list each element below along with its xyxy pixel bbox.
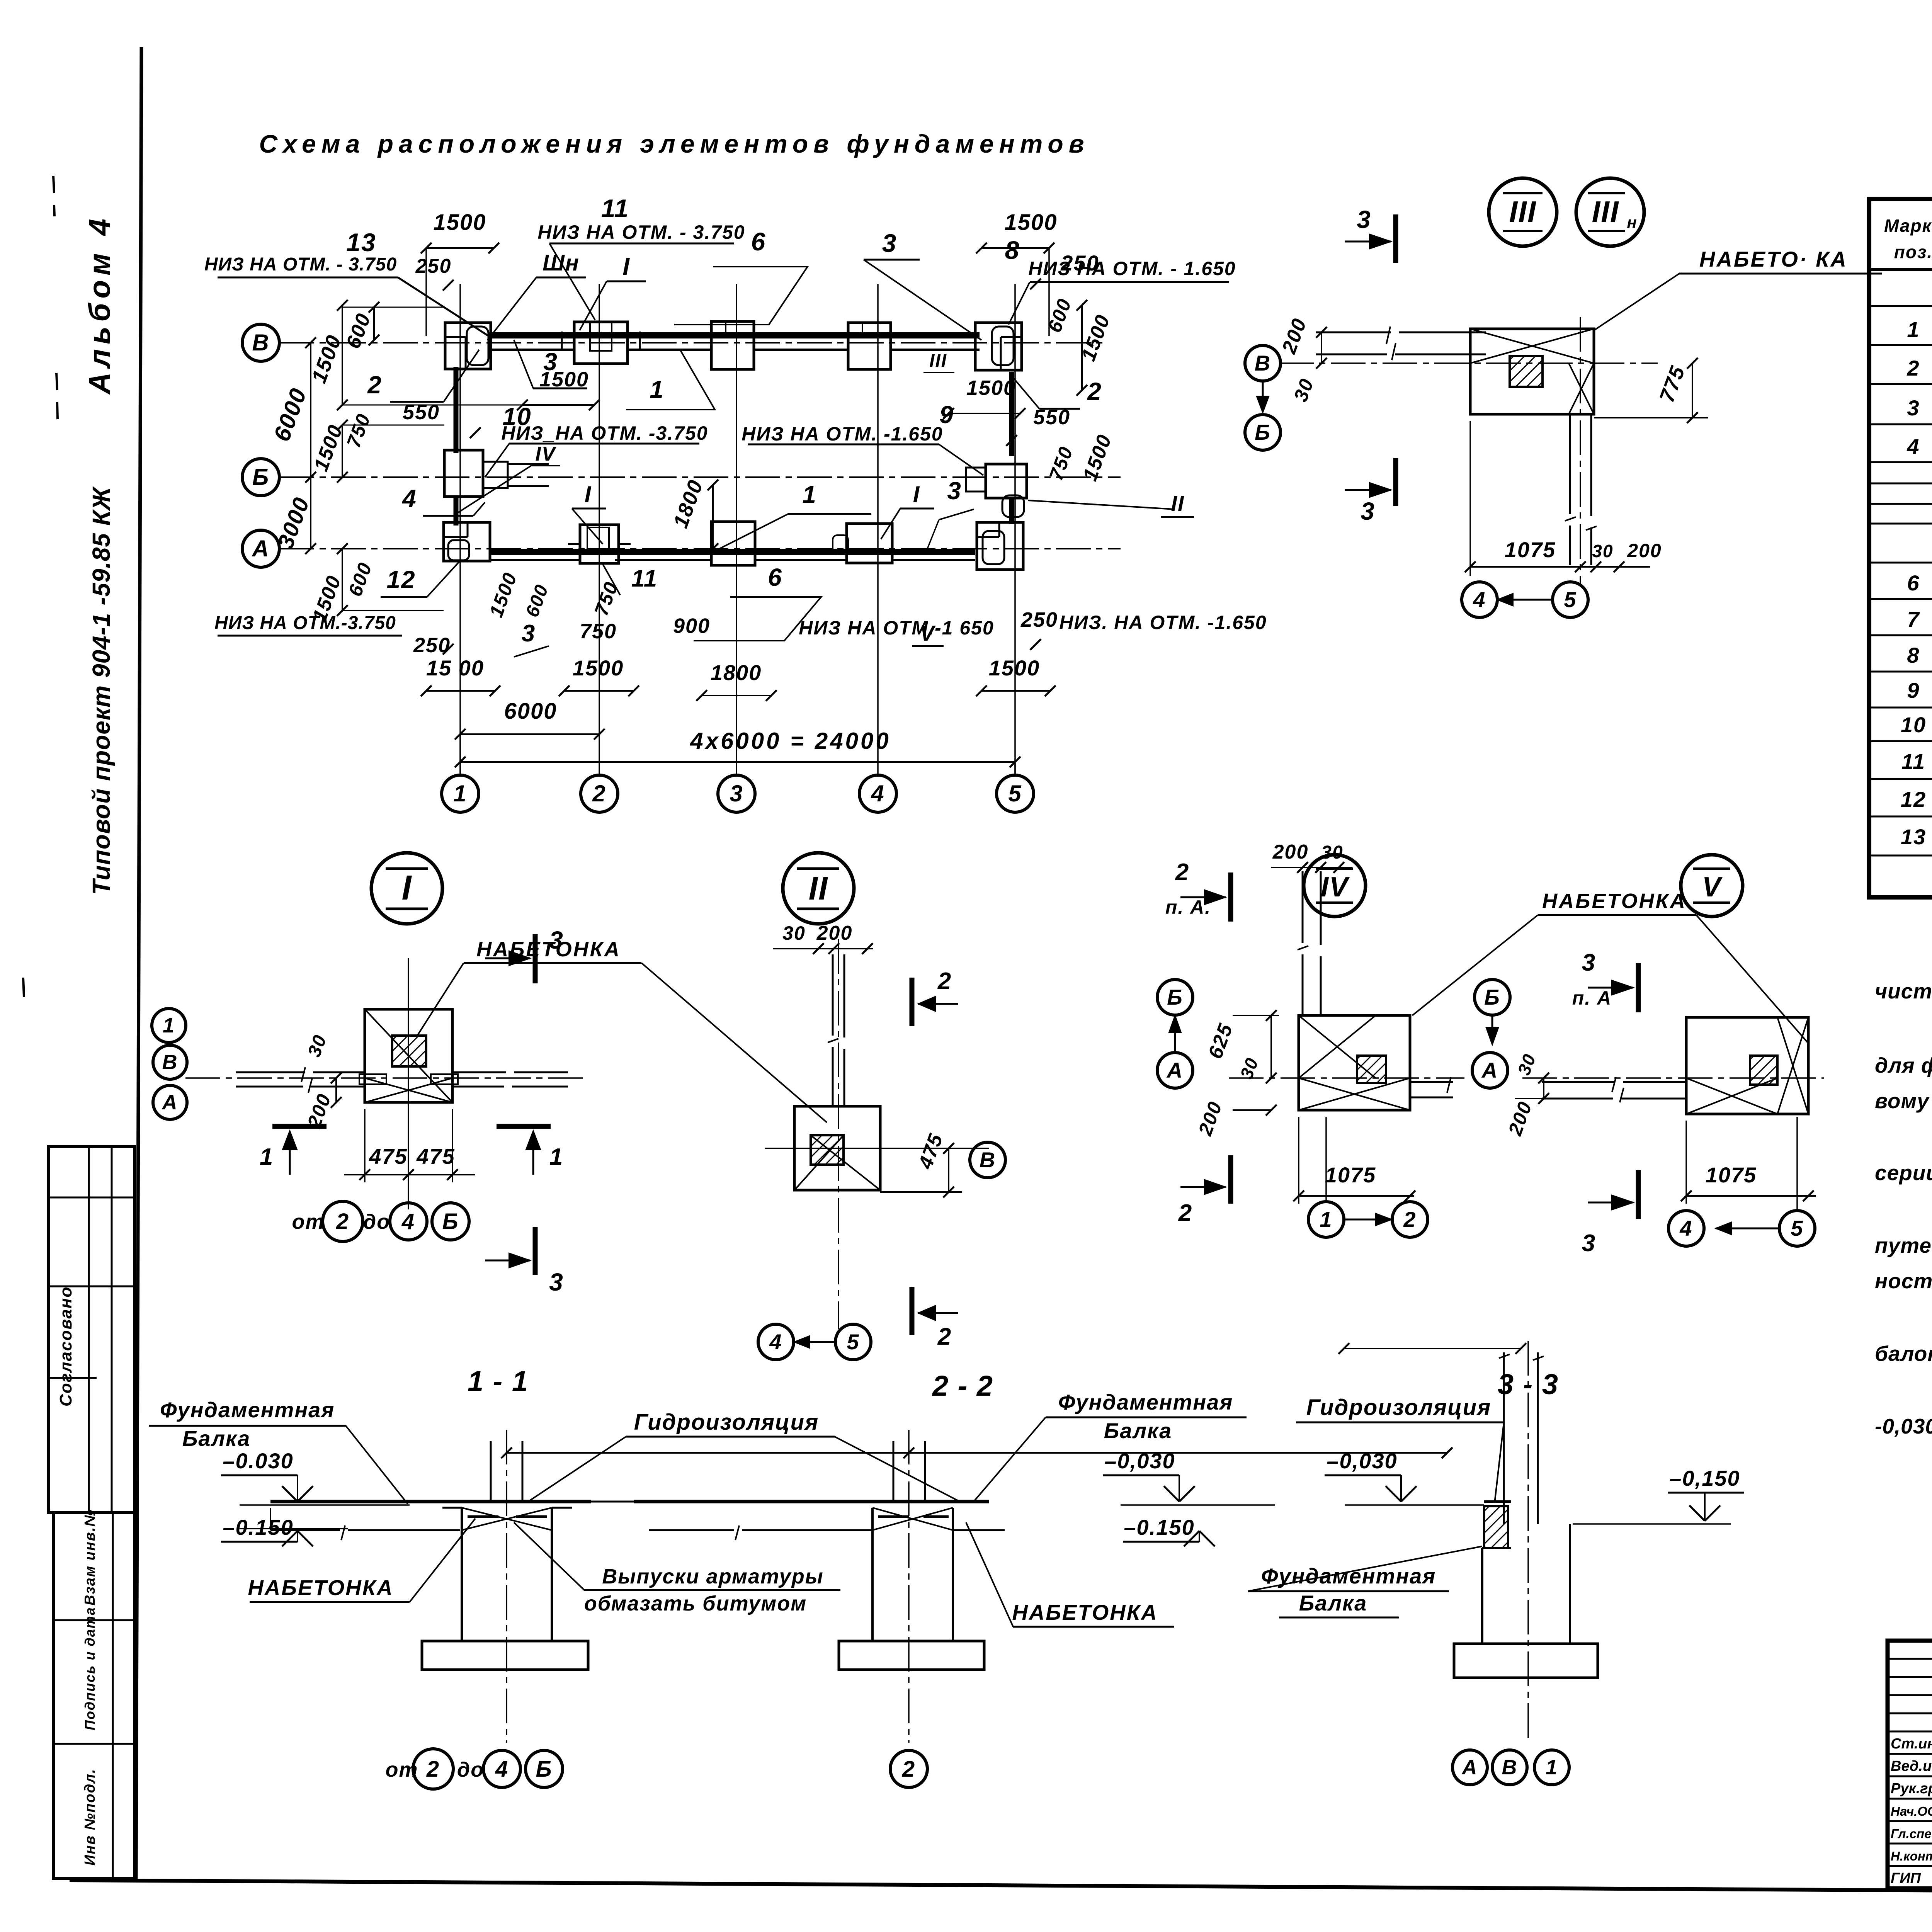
left vertical dim chain 1500/600 near В (342, 305, 343, 405)
svg-text:Ст.инж: Ст.инж (1891, 1736, 1932, 1752)
detail III: vertical axis dashdot col5 (1580, 317, 1581, 587)
detail III: X-brace top strip (1470, 329, 1594, 363)
svg-text:2: 2 (1175, 859, 1189, 886)
svg-text:3: 3 (1357, 206, 1371, 233)
svg-text:1 - 1: 1 - 1 (468, 1365, 529, 1397)
footing Фм4 col5 row Б (986, 464, 1027, 498)
svg-text:250: 250 (1060, 251, 1099, 275)
svg-text:НИЗ НА ОТМ. - 1.650: НИЗ НА ОТМ. - 1.650 (1028, 258, 1236, 279)
svg-text:А: А (1461, 1756, 1478, 1779)
svg-text:вому проекту.: вому проекту. (1875, 1089, 1932, 1113)
svg-text:5: 5 (1564, 587, 1577, 612)
section L: pier X diagonals (462, 1508, 552, 1530)
svg-text:6: 6 (751, 227, 766, 256)
svg-text:1500: 1500 (966, 376, 1016, 400)
detail I: beam double lines left with break (236, 1071, 305, 1073)
svg-text:2: 2 (1906, 356, 1920, 380)
foundation beam row В top thick line (488, 332, 980, 338)
svg-text:200: 200 (1272, 841, 1309, 863)
svg-text:250: 250 (1020, 608, 1058, 631)
svg-text:для фундаментов, дана в пояс: для фундаментов, дана в пояснительной за… (1875, 1053, 1932, 1077)
svg-text:Выпуски арматуры: Выпуски арматуры (602, 1565, 824, 1588)
svg-text:1: 1 (1320, 1207, 1332, 1231)
detail circle IIIн (1576, 178, 1644, 246)
spec table header row line (1869, 268, 1932, 271)
detail I: axis dashdot horizontal (185, 1077, 583, 1079)
svg-text:III: III (1592, 195, 1619, 229)
svg-text:путем втрамбования в грун: путем втрамбования в грунт щебня или гра… (1875, 1233, 1932, 1257)
scan dashes left edge (53, 176, 54, 193)
svg-text:Б: Б (1167, 985, 1183, 1009)
detail V: hatched stub (1750, 1056, 1777, 1085)
plan: horizontal axis line Б (279, 476, 1121, 478)
detail II: circle В right (970, 1142, 1005, 1178)
detail II: X diagonal (811, 1135, 880, 1190)
svg-text:200: 200 (1627, 540, 1662, 561)
detail II: section marks 2 (910, 978, 915, 1026)
svg-text:30: 30 (1321, 842, 1343, 863)
svg-text:4: 4 (1473, 587, 1486, 612)
svg-text:3: 3 (1907, 396, 1920, 420)
svg-text:обмазать битумом: обмазать битумом (584, 1592, 807, 1615)
svg-text:30: 30 (1592, 541, 1613, 561)
svg-text:4: 4 (495, 1757, 509, 1782)
svg-text:А: А (251, 536, 269, 561)
svg-text:11: 11 (631, 565, 658, 592)
section M: wall above (893, 1441, 895, 1502)
svg-text:Гидроизоляция: Гидроизоляция (1306, 1395, 1492, 1420)
svg-text:1: 1 (453, 781, 467, 806)
svg-text:1: 1 (549, 1144, 563, 1170)
svg-text:НИЗ НА ОТМ. - 3.750: НИЗ НА ОТМ. - 3.750 (204, 254, 397, 275)
svg-text:3: 3 (549, 1268, 564, 1296)
svg-text:от: от (292, 1210, 325, 1233)
footing Фм1 col4 row В (848, 323, 891, 369)
svg-text:II: II (809, 870, 828, 906)
svg-text:Фундаментная: Фундаментная (160, 1398, 335, 1422)
detail circle III (1489, 178, 1557, 246)
svg-text:4x6000 = 24000: 4x6000 = 24000 (690, 728, 891, 754)
svg-text:Балка: Балка (182, 1426, 251, 1451)
svg-text:1075: 1075 (1505, 537, 1556, 562)
svg-text:3: 3 (882, 229, 897, 257)
section R: circles А В 1 (1452, 1750, 1487, 1785)
footing Фм5 col1 row Б (444, 450, 483, 497)
svg-text:900: 900 (673, 614, 710, 638)
svg-text:8: 8 (1005, 236, 1020, 264)
svg-text:3: 3 (1582, 949, 1596, 976)
left strip lower box (53, 1512, 134, 1878)
svg-text:2: 2 (336, 1209, 349, 1234)
svg-text:4: 4 (769, 1330, 782, 1354)
detail III: circles В Б with arrow (1245, 345, 1281, 381)
svg-text:V: V (1702, 872, 1723, 903)
foundation beam row В bottom thin line (488, 349, 574, 351)
svg-text:Б: Б (252, 464, 269, 490)
detail III: big footing rect (1470, 329, 1594, 414)
svg-text:3: 3 (1361, 497, 1375, 525)
svg-text:Н.контр.: Н.контр. (1891, 1849, 1932, 1863)
detail IV: hatched stub (1357, 1056, 1386, 1083)
svg-text:НАБЕТОНКА: НАБЕТОНКА (1012, 1600, 1158, 1624)
svg-text:I: I (913, 481, 920, 507)
section R: hatched beam end (1484, 1506, 1508, 1548)
svg-text:1: 1 (802, 481, 817, 509)
svg-text:5: 5 (1008, 781, 1022, 806)
svg-text:Б: Б (536, 1757, 552, 1782)
svg-text:н: н (1627, 213, 1637, 231)
svg-text:1: 1 (163, 1014, 175, 1037)
svg-text:В: В (162, 1051, 178, 1074)
detail IV: beam stub right (1410, 1081, 1453, 1083)
svg-text:–0.150: –0.150 (1124, 1515, 1194, 1539)
section M: axis dashdot (908, 1430, 910, 1743)
svg-text:9: 9 (1907, 678, 1920, 702)
svg-text:4: 4 (1906, 434, 1920, 459)
svg-text:Балка: Балка (1104, 1418, 1172, 1443)
svg-text:2: 2 (1403, 1207, 1416, 1231)
detail II: axis horizontal thin (765, 1148, 989, 1149)
detail IV: axis horizontal dashdot (1229, 1077, 1464, 1079)
section M: footing pad (839, 1641, 984, 1670)
corner footing col1 row А (L-shape) (444, 522, 490, 561)
svg-text:Гл.спец.т.о: Гл.спец.т.о (1891, 1827, 1932, 1841)
svg-text:-0,030 из слоя цементного: -0,030 из слоя цементного раствора соста… (1875, 1414, 1932, 1438)
spec table outer and vertical lines (1869, 199, 1932, 897)
left strip upper box Согласовано (48, 1146, 134, 1512)
section L: beam body lines with break (270, 1529, 340, 1531)
detail IV: X-brace left strip (1299, 1015, 1376, 1078)
svg-text:750: 750 (580, 620, 617, 643)
svg-text:НИЗ НА ОТМ. - 3.750: НИЗ НА ОТМ. - 3.750 (537, 221, 745, 243)
svg-text:Б: Б (1255, 420, 1271, 444)
svg-text:1500: 1500 (573, 656, 624, 680)
detail V: axis horizontal dashdot (1522, 1077, 1824, 1079)
detail I: axis vertical (408, 958, 409, 1209)
detail III: beam plan (double line with break) (1316, 332, 1391, 333)
svg-text:НАБЕТОНКА: НАБЕТОНКА (1542, 889, 1687, 913)
detail II: hatched stub (811, 1135, 844, 1165)
grid circle А (242, 530, 279, 567)
svg-text:1: 1 (1907, 317, 1920, 342)
svg-text:IV: IV (1321, 872, 1350, 903)
detail I: section mark 1 right (497, 1124, 551, 1129)
svg-text:5: 5 (847, 1330, 859, 1354)
svg-text:1075: 1075 (1325, 1163, 1376, 1187)
footing Фм3 col4 row А (847, 524, 892, 563)
svg-text:II: II (1171, 491, 1184, 515)
spec table row lines (1869, 305, 1932, 307)
svg-text:А: А (162, 1091, 178, 1114)
svg-text:200: 200 (816, 922, 853, 944)
svg-text:Марка: Марка (1884, 216, 1932, 236)
detail III: hatched column stub (1510, 356, 1543, 387)
footing Фм6 col2 row В (574, 322, 628, 364)
svg-text:Нач.ОСП-1: Нач.ОСП-1 (1891, 1804, 1932, 1818)
svg-text:1075: 1075 (1706, 1163, 1757, 1187)
svg-text:–0.030: –0.030 (223, 1449, 293, 1473)
svg-text:III: III (929, 351, 947, 371)
svg-text:Схема расположения элементов: Схема расположения элементов фундаментов (259, 129, 1089, 158)
detail III: wall double vertical below (1569, 414, 1571, 514)
section R: footing pad (1454, 1644, 1598, 1678)
section L: footing pad (422, 1641, 588, 1670)
grid circle В (242, 324, 279, 361)
svg-text:1: 1 (1546, 1756, 1558, 1779)
svg-text:3: 3 (549, 926, 564, 954)
detail II: wall double vertical above with break (832, 954, 834, 1036)
svg-text:2: 2 (937, 968, 952, 995)
svg-text:2: 2 (1178, 1200, 1192, 1226)
svg-text:3: 3 (947, 477, 962, 505)
svg-text:А: А (1166, 1058, 1183, 1082)
svg-text:1: 1 (650, 376, 664, 403)
svg-text:НИЗ_НА ОТМ. -3.750: НИЗ_НА ОТМ. -3.750 (501, 422, 708, 444)
detail I: section mark 3 bottom (533, 1227, 538, 1275)
svg-text:–0,150: –0,150 (1669, 1466, 1740, 1490)
svg-text:В: В (1502, 1756, 1518, 1779)
section M: beam strips (634, 1500, 989, 1503)
svg-text:1500: 1500 (539, 368, 589, 391)
svg-text:2: 2 (426, 1757, 440, 1782)
section R: axis dashdot (1527, 1341, 1529, 1743)
svg-text:1500: 1500 (433, 210, 486, 235)
title block left staff sub-table (1888, 1641, 1932, 1888)
detail IV: circles 1 2 arrow (1308, 1202, 1344, 1237)
svg-text:III: III (1509, 195, 1536, 229)
corner footing Фм7 col5 row В (L-shape) (975, 323, 1022, 370)
detail I: X diagonals (365, 1078, 452, 1102)
svg-text:30: 30 (782, 922, 806, 944)
svg-text:4: 4 (871, 781, 884, 806)
svg-text:НАБЕТОНКА: НАБЕТОНКА (248, 1575, 393, 1600)
svg-text:Б: Б (1484, 985, 1500, 1009)
section L: wall above beam (490, 1441, 492, 1502)
footing Фм2 col3 row А (711, 522, 755, 565)
svg-text:1500: 1500 (1004, 210, 1057, 235)
svg-text:чистого пола первого этажа: чистого пола первого этажа машинного зал… (1875, 979, 1932, 1003)
svg-text:до: до (363, 1210, 390, 1233)
detail IV: footing rect (1299, 1015, 1410, 1110)
svg-text:Фундаментная: Фундаментная (1058, 1390, 1233, 1414)
svg-text:НИЗ НА ОТМ.-1 650: НИЗ НА ОТМ.-1 650 (799, 617, 994, 639)
detail I: footing square (365, 1009, 452, 1102)
svg-text:12: 12 (1901, 787, 1926, 811)
detail V: circles 4 5 arrow (1668, 1211, 1704, 1246)
svg-text:В: В (980, 1148, 996, 1172)
svg-text:475: 475 (369, 1144, 407, 1168)
svg-text:В: В (252, 330, 269, 355)
svg-text:Согласовано: Согласовано (56, 1286, 75, 1406)
foundation beam row А thick line (489, 549, 975, 555)
sheet bottom frame line (70, 1880, 1932, 1892)
detail circle I (371, 853, 442, 924)
section R: pier column (1481, 1548, 1483, 1644)
svg-text:1500: 1500 (989, 656, 1040, 680)
detail I: hatched column stub (392, 1036, 426, 1066)
corner footing Фм8 col1 row В (L-shape) (445, 323, 491, 369)
svg-text:2: 2 (902, 1757, 915, 1782)
left dim 6000 В-Б (310, 343, 311, 549)
svg-text:6: 6 (1907, 571, 1920, 595)
svg-text:6: 6 (768, 563, 782, 591)
section L: axis dashdot vertical (506, 1430, 507, 1743)
svg-text:I: I (401, 869, 412, 907)
svg-text:НИЗ НА ОТМ.-3.750: НИЗ НА ОТМ.-3.750 (214, 613, 396, 633)
svg-text:ГИП: ГИП (1891, 1870, 1921, 1886)
svg-text:4: 4 (401, 1209, 415, 1234)
svg-text:475: 475 (416, 1144, 455, 1168)
svg-text:–0.150: –0.150 (223, 1515, 293, 1539)
detail V: footing rect (1686, 1017, 1808, 1114)
detail I: section mark 1 left (272, 1124, 327, 1129)
svg-text:2: 2 (367, 371, 382, 399)
svg-text:11: 11 (1901, 749, 1925, 774)
svg-text:2: 2 (1087, 378, 1102, 405)
svg-text:–0,030: –0,030 (1104, 1449, 1175, 1473)
detail III: axis В dashdot through beam (1279, 362, 1658, 364)
gable beam along axis 1 thick vertical (454, 367, 459, 453)
svg-text:5: 5 (1791, 1216, 1803, 1240)
detail V: circles Б А arrow (1475, 980, 1510, 1015)
svg-text:Балка: Балка (1299, 1591, 1367, 1615)
svg-text:1: 1 (260, 1144, 274, 1170)
corner footing col5 row А (L-shape) (977, 522, 1023, 570)
svg-text:Вед.инж: Вед.инж (1891, 1758, 1932, 1774)
svg-text:4: 4 (1679, 1216, 1692, 1240)
svg-text:А: А (1481, 1058, 1498, 1082)
svg-text:13: 13 (1901, 825, 1926, 849)
svg-text:Взам инв.№: Взам инв.№ (82, 1509, 98, 1605)
section M: pier column (871, 1508, 874, 1641)
section L: beam seat dashes inside pier (468, 1515, 498, 1518)
svg-text:4: 4 (401, 485, 417, 512)
svg-text:11: 11 (601, 194, 629, 223)
svg-text:3: 3 (730, 781, 743, 806)
plan: horizontal axis line В (279, 342, 1105, 344)
detail V: beam double lines left with break (1542, 1081, 1615, 1083)
svg-text:балок выполнить набетонки: балок выполнить набетонки из бетона марк… (1875, 1342, 1932, 1366)
plan: vertical column axis lines 1-5 (459, 284, 461, 775)
svg-text:2 - 2: 2 - 2 (932, 1370, 993, 1402)
svg-text:10: 10 (1901, 713, 1926, 737)
detail I: section mark 3 top-right (533, 934, 538, 983)
svg-text:Гидроизоляция: Гидроизоляция (634, 1410, 819, 1435)
gable beam along axis 5 thick vertical (1009, 372, 1014, 456)
detail III: circles 4 5 with arrow (1462, 582, 1497, 617)
svg-text:Типовой проект 904-1 -59.85: Типовой проект 904-1 -59.85 КЖ (87, 486, 115, 895)
svg-text:8: 8 (1907, 643, 1920, 667)
svg-text:Альбом 4: Альбом 4 (82, 214, 116, 395)
detail III: X-brace right strip (1569, 363, 1594, 414)
detail II: circles 4 5 arrow (758, 1324, 794, 1360)
svg-text:7: 7 (1907, 607, 1920, 631)
svg-text:до: до (457, 1758, 484, 1781)
svg-text:–0,030: –0,030 (1327, 1449, 1397, 1473)
detail circle IV (1304, 855, 1366, 917)
sheet inner frame left vertical line (136, 47, 141, 1881)
detail circle V (1681, 855, 1743, 917)
svg-text:IV: IV (535, 443, 556, 465)
grid circles 1-5 below plan (442, 775, 479, 812)
svg-text:НИЗ НА ОТМ. -1.650: НИЗ НА ОТМ. -1.650 (742, 423, 943, 445)
svg-text:2: 2 (592, 781, 606, 806)
svg-text:I: I (622, 253, 630, 281)
svg-text:1800: 1800 (711, 660, 762, 685)
foundation beam row А bottom thin line (489, 559, 580, 561)
section M: circle 2 (890, 1750, 927, 1787)
svg-text:НИЗ. НА ОТМ. -1.650: НИЗ. НА ОТМ. -1.650 (1059, 612, 1267, 633)
detail I: circles 1 В А left (152, 1009, 186, 1043)
svg-text:НАБЕТО· КА: НАБЕТО· КА (1699, 247, 1848, 271)
grid circle Б (242, 459, 279, 496)
detail I: beam double lines right with break (452, 1071, 506, 1073)
svg-text:серии 1 412 - 1/ 77.: серии 1 412 - 1/ 77. (1875, 1161, 1932, 1185)
detail circle II (783, 853, 854, 924)
svg-text:I: I (585, 481, 592, 507)
svg-text:13: 13 (346, 228, 376, 257)
detail I: beam seats small rects (359, 1074, 386, 1084)
footing Фм6 col2 row А (580, 525, 619, 563)
svg-text:3: 3 (1582, 1230, 1596, 1257)
svg-text:Инв №подл.: Инв №подл. (82, 1769, 98, 1866)
svg-text:2: 2 (937, 1323, 952, 1350)
svg-text:Подпись и дата: Подпись и дата (82, 1607, 98, 1730)
svg-text:ностью 40 - 60 мм.: ностью 40 - 60 мм. (1875, 1269, 1932, 1293)
svg-text:550: 550 (403, 401, 440, 424)
svg-text:550: 550 (1033, 406, 1070, 429)
svg-text:Б: Б (442, 1209, 459, 1234)
svg-text:В: В (1255, 351, 1271, 375)
svg-text:15 00: 15 00 (426, 656, 484, 680)
svg-text:3: 3 (522, 620, 536, 647)
section L: beam top thick line (270, 1500, 591, 1503)
detail IV: wall double vertical above (1302, 871, 1304, 943)
section L: pier column (461, 1508, 463, 1641)
svg-text:п. А: п. А (1572, 987, 1612, 1009)
svg-text:12: 12 (386, 566, 415, 594)
beam stub ФБ1 row Б (508, 463, 549, 465)
plan: horizontal axis line А (279, 548, 1121, 549)
detail II: axis vertical dashdot (838, 939, 839, 1329)
svg-text:250: 250 (415, 255, 452, 277)
svg-text:6000: 6000 (504, 699, 557, 724)
plan extension lines left of corner col1 (342, 307, 445, 308)
detail II: footing square (794, 1106, 880, 1190)
detail IV: circles Б А arrow (1157, 980, 1193, 1015)
svg-text:поз.: поз. (1894, 242, 1932, 262)
detail V: X-brace right strip (1777, 1017, 1808, 1114)
svg-text:V: V (920, 621, 936, 645)
section R: wall above (1503, 1352, 1505, 1524)
footing Фм1 col3 row В (711, 321, 754, 369)
svg-text:Рук.гр: Рук.гр (1891, 1781, 1932, 1797)
